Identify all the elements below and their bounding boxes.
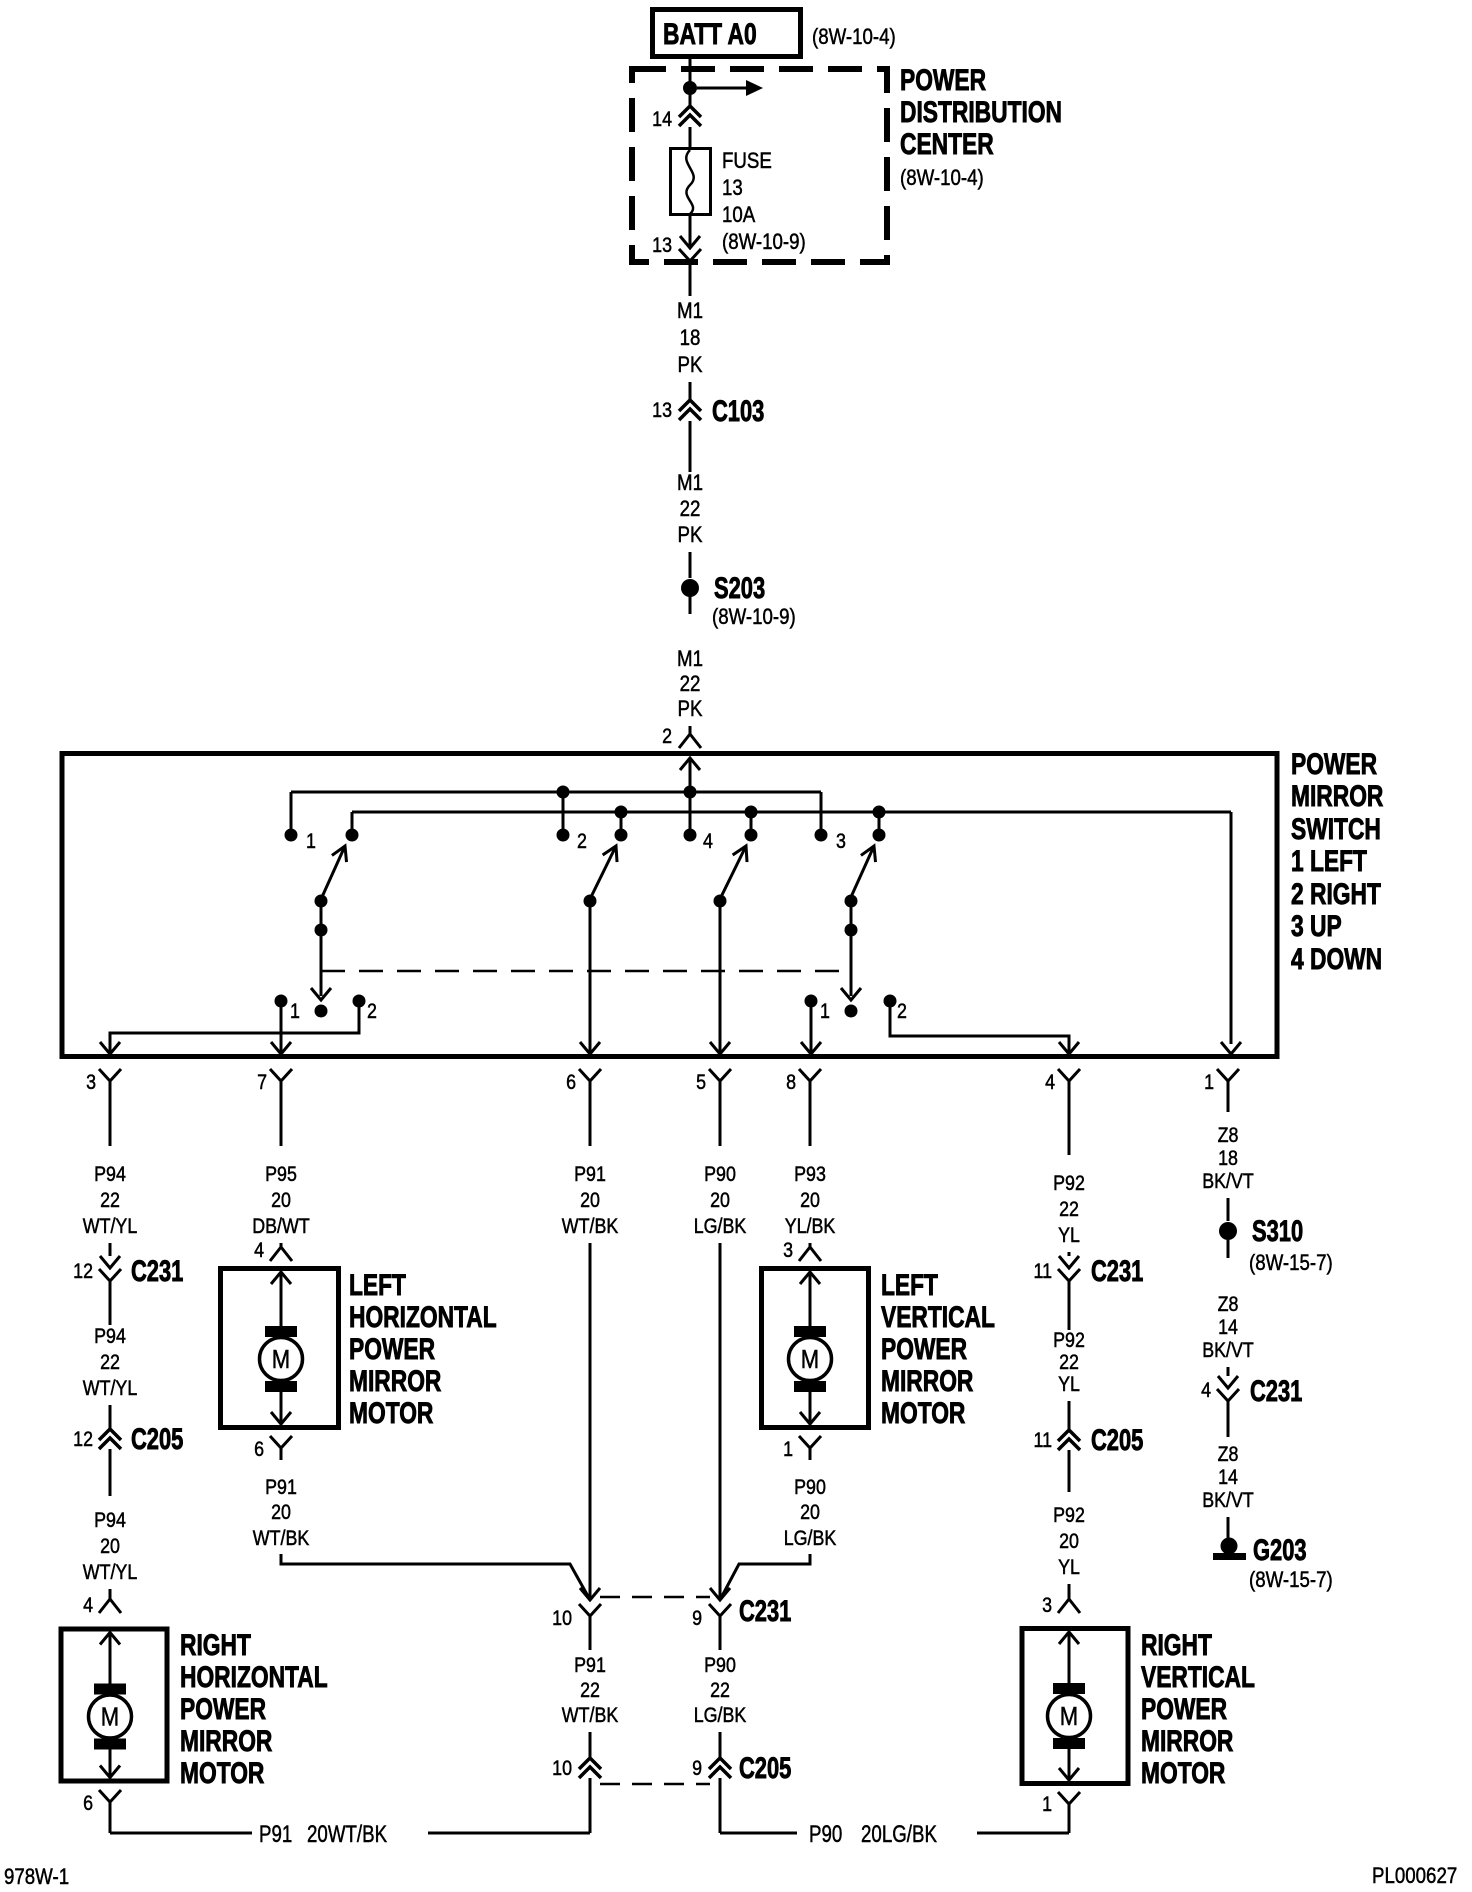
svg-text:M1: M1 — [677, 472, 703, 496]
svg-text:YL/BK: YL/BK — [785, 1215, 836, 1239]
svg-text:978W-1: 978W-1 — [4, 1866, 69, 1890]
svg-text:22: 22 — [100, 1189, 120, 1213]
svg-text:Z8: Z8 — [1218, 1293, 1239, 1317]
svg-text:HORIZONTAL: HORIZONTAL — [349, 1300, 497, 1334]
svg-text:3: 3 — [783, 1239, 793, 1263]
svg-text:C205: C205 — [1091, 1423, 1143, 1457]
svg-text:13: 13 — [722, 177, 743, 201]
svg-text:MOTOR: MOTOR — [349, 1396, 433, 1430]
svg-text:LG/BK: LG/BK — [694, 1215, 747, 1239]
svg-text:P90: P90 — [809, 1821, 842, 1848]
svg-text:PK: PK — [678, 698, 703, 722]
svg-text:20: 20 — [100, 1535, 120, 1559]
svg-text:11: 11 — [1033, 1429, 1052, 1453]
svg-text:P92: P92 — [1053, 1172, 1085, 1196]
svg-text:1 LEFT: 1 LEFT — [1291, 844, 1367, 878]
svg-text:P90: P90 — [704, 1654, 736, 1678]
svg-text:18: 18 — [680, 327, 701, 351]
svg-text:M: M — [272, 1345, 290, 1374]
svg-text:20: 20 — [271, 1501, 291, 1525]
svg-text:CENTER: CENTER — [900, 127, 994, 161]
svg-text:M1: M1 — [677, 648, 703, 672]
svg-text:20: 20 — [710, 1189, 730, 1213]
svg-text:6: 6 — [566, 1071, 576, 1095]
svg-text:POWER: POWER — [180, 1692, 266, 1726]
svg-text:WT/BK: WT/BK — [562, 1704, 618, 1728]
svg-text:3: 3 — [86, 1071, 96, 1095]
svg-text:18: 18 — [1218, 1147, 1238, 1171]
svg-text:22: 22 — [710, 1679, 730, 1703]
svg-text:VERTICAL: VERTICAL — [1141, 1660, 1255, 1694]
svg-text:P90: P90 — [794, 1476, 826, 1500]
svg-text:P94: P94 — [94, 1509, 126, 1533]
svg-text:20WT/BK: 20WT/BK — [307, 1821, 388, 1848]
svg-text:10A: 10A — [722, 204, 756, 228]
svg-text:S203: S203 — [714, 571, 765, 605]
svg-text:1: 1 — [1204, 1071, 1214, 1095]
svg-text:2: 2 — [577, 830, 587, 854]
svg-text:PK: PK — [678, 524, 703, 548]
svg-text:WT/YL: WT/YL — [83, 1215, 138, 1239]
svg-text:LG/BK: LG/BK — [694, 1704, 747, 1728]
svg-text:2 RIGHT: 2 RIGHT — [1291, 877, 1381, 911]
svg-text:BATT A0: BATT A0 — [663, 17, 757, 51]
svg-text:22: 22 — [680, 498, 701, 522]
svg-text:1: 1 — [306, 830, 316, 854]
svg-text:M: M — [801, 1345, 819, 1374]
svg-text:YL: YL — [1058, 1224, 1080, 1248]
svg-text:MOTOR: MOTOR — [1141, 1756, 1225, 1790]
svg-text:BK/VT: BK/VT — [1202, 1489, 1254, 1513]
svg-text:P91: P91 — [574, 1654, 606, 1678]
svg-text:4: 4 — [1201, 1379, 1211, 1403]
svg-text:LEFT: LEFT — [349, 1268, 406, 1302]
svg-text:RIGHT: RIGHT — [1141, 1628, 1212, 1662]
svg-text:1: 1 — [290, 1000, 300, 1024]
svg-text:P91: P91 — [265, 1476, 297, 1500]
svg-text:(8W-15-7): (8W-15-7) — [1249, 1252, 1333, 1276]
svg-text:20: 20 — [271, 1189, 291, 1213]
svg-text:FUSE: FUSE — [722, 150, 772, 174]
svg-text:LG/BK: LG/BK — [784, 1527, 837, 1551]
svg-text:3: 3 — [1042, 1594, 1052, 1618]
svg-text:WT/BK: WT/BK — [562, 1215, 618, 1239]
svg-text:MOTOR: MOTOR — [180, 1756, 264, 1790]
svg-text:LEFT: LEFT — [881, 1268, 938, 1302]
svg-text:P92: P92 — [1053, 1504, 1085, 1528]
svg-text:(8W-10-9): (8W-10-9) — [712, 606, 796, 630]
svg-text:13: 13 — [652, 234, 672, 258]
svg-text:4: 4 — [1045, 1071, 1055, 1095]
svg-text:P95: P95 — [265, 1163, 297, 1187]
svg-text:WT/YL: WT/YL — [83, 1377, 138, 1401]
svg-text:22: 22 — [100, 1351, 120, 1375]
svg-text:12: 12 — [73, 1260, 93, 1284]
svg-text:4: 4 — [254, 1239, 264, 1263]
svg-text:P91: P91 — [259, 1821, 292, 1848]
svg-text:M: M — [101, 1703, 119, 1732]
svg-text:20: 20 — [580, 1189, 600, 1213]
svg-text:14: 14 — [652, 108, 672, 132]
svg-text:1: 1 — [1042, 1793, 1052, 1817]
svg-text:P93: P93 — [794, 1163, 826, 1187]
svg-text:PK: PK — [678, 354, 703, 378]
svg-text:POWER: POWER — [349, 1332, 435, 1366]
svg-text:22: 22 — [680, 673, 701, 697]
svg-text:(8W-10-4): (8W-10-4) — [812, 26, 896, 50]
svg-text:20: 20 — [1059, 1530, 1079, 1554]
svg-text:9: 9 — [692, 1757, 702, 1781]
svg-text:C205: C205 — [739, 1751, 791, 1785]
svg-text:M: M — [1060, 1702, 1078, 1731]
svg-text:11: 11 — [1033, 1260, 1052, 1284]
svg-text:4: 4 — [703, 830, 713, 854]
svg-text:YL: YL — [1058, 1556, 1080, 1580]
svg-text:10: 10 — [552, 1607, 572, 1631]
svg-text:20LG/BK: 20LG/BK — [861, 1821, 938, 1848]
svg-text:7: 7 — [257, 1071, 267, 1095]
svg-text:4 DOWN: 4 DOWN — [1291, 942, 1382, 976]
svg-text:M1: M1 — [677, 300, 703, 324]
svg-text:Z8: Z8 — [1218, 1124, 1239, 1148]
svg-text:1: 1 — [783, 1438, 793, 1462]
svg-text:PL000627: PL000627 — [1372, 1865, 1457, 1889]
svg-text:3: 3 — [836, 830, 846, 854]
svg-text:22: 22 — [1059, 1198, 1079, 1222]
svg-text:MIRROR: MIRROR — [1141, 1724, 1233, 1758]
svg-text:2: 2 — [897, 1000, 907, 1024]
svg-text:BK/VT: BK/VT — [1202, 1339, 1254, 1363]
svg-text:BK/VT: BK/VT — [1202, 1170, 1254, 1194]
svg-text:8: 8 — [786, 1071, 796, 1095]
svg-text:C231: C231 — [739, 1594, 791, 1628]
svg-text:(8W-15-7): (8W-15-7) — [1249, 1569, 1333, 1593]
svg-text:P91: P91 — [574, 1163, 606, 1187]
svg-text:HORIZONTAL: HORIZONTAL — [180, 1660, 328, 1694]
svg-text:14: 14 — [1218, 1466, 1238, 1490]
svg-text:22: 22 — [580, 1679, 600, 1703]
svg-text:(8W-10-9): (8W-10-9) — [722, 231, 806, 255]
svg-text:YL: YL — [1058, 1373, 1080, 1397]
svg-text:P90: P90 — [704, 1163, 736, 1187]
svg-text:WT/YL: WT/YL — [83, 1561, 138, 1585]
svg-text:DISTRIBUTION: DISTRIBUTION — [900, 95, 1062, 129]
svg-text:6: 6 — [83, 1792, 93, 1816]
svg-text:MOTOR: MOTOR — [881, 1396, 965, 1430]
svg-text:13: 13 — [652, 399, 672, 423]
svg-text:WT/BK: WT/BK — [253, 1527, 309, 1551]
svg-text:C103: C103 — [712, 394, 764, 428]
svg-text:DB/WT: DB/WT — [252, 1215, 310, 1239]
svg-text:C231: C231 — [131, 1254, 183, 1288]
svg-text:Z8: Z8 — [1218, 1443, 1239, 1467]
svg-text:14: 14 — [1218, 1316, 1238, 1340]
svg-text:C205: C205 — [131, 1422, 183, 1456]
svg-text:5: 5 — [696, 1071, 706, 1095]
svg-text:MIRROR: MIRROR — [1291, 779, 1383, 813]
svg-text:C231: C231 — [1091, 1254, 1143, 1288]
svg-text:6: 6 — [254, 1438, 264, 1462]
svg-text:(8W-10-4): (8W-10-4) — [900, 167, 984, 191]
svg-text:9: 9 — [692, 1607, 702, 1631]
svg-text:P94: P94 — [94, 1163, 126, 1187]
svg-text:VERTICAL: VERTICAL — [881, 1300, 995, 1334]
svg-text:POWER: POWER — [881, 1332, 967, 1366]
svg-text:S310: S310 — [1252, 1214, 1303, 1248]
svg-text:G203: G203 — [1253, 1533, 1307, 1567]
svg-text:MIRROR: MIRROR — [881, 1364, 973, 1398]
svg-text:22: 22 — [1059, 1351, 1079, 1375]
svg-text:SWITCH: SWITCH — [1291, 812, 1381, 846]
svg-text:2: 2 — [662, 725, 672, 749]
svg-text:20: 20 — [800, 1189, 820, 1213]
svg-text:P94: P94 — [94, 1325, 126, 1349]
svg-text:4: 4 — [83, 1594, 93, 1618]
svg-text:20: 20 — [800, 1501, 820, 1525]
svg-text:3 UP: 3 UP — [1291, 909, 1342, 943]
svg-text:POWER: POWER — [1141, 1692, 1227, 1726]
svg-text:MIRROR: MIRROR — [349, 1364, 441, 1398]
svg-text:POWER: POWER — [1291, 747, 1377, 781]
svg-text:12: 12 — [73, 1428, 93, 1452]
svg-text:POWER: POWER — [900, 63, 986, 97]
svg-text:2: 2 — [367, 1000, 377, 1024]
svg-text:P92: P92 — [1053, 1329, 1085, 1353]
svg-text:MIRROR: MIRROR — [180, 1724, 272, 1758]
svg-text:C231: C231 — [1250, 1374, 1302, 1408]
svg-text:1: 1 — [820, 1000, 830, 1024]
svg-text:RIGHT: RIGHT — [180, 1628, 251, 1662]
svg-text:10: 10 — [552, 1757, 572, 1781]
